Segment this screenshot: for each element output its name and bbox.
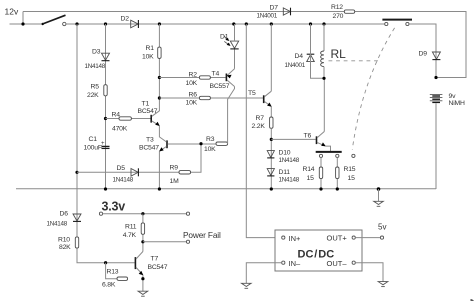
- svg-text:D2: D2: [121, 15, 130, 22]
- svg-text:T6: T6: [304, 133, 312, 140]
- node junction coil bottom: [322, 77, 325, 80]
- svg-text:1N4001: 1N4001: [285, 62, 306, 69]
- ground IN-: [242, 283, 252, 288]
- svg-text:R7: R7: [256, 115, 265, 122]
- wire R7 to D10 junction: [270, 128, 272, 189]
- svg-text:6.8K: 6.8K: [102, 281, 116, 288]
- diode D10: [267, 150, 300, 164]
- svg-text:22K: 22K: [87, 92, 99, 99]
- diode D1 led: [220, 33, 239, 49]
- wire ground rail: [16, 188, 436, 190]
- diode D2: [121, 15, 139, 28]
- node junction rail x105: [104, 187, 107, 190]
- svg-text:1N4148: 1N4148: [279, 157, 300, 164]
- diode D5: [113, 165, 139, 184]
- svg-text:C1: C1: [89, 136, 98, 143]
- svg-text:OUT+: OUT+: [327, 234, 348, 243]
- diode D4 flyback: [285, 53, 315, 69]
- pin OUT-: [327, 259, 356, 268]
- svg-text:2.2K: 2.2K: [252, 123, 266, 130]
- node junction rail ground stub: [377, 187, 381, 191]
- svg-text:R3: R3: [206, 136, 215, 143]
- svg-text:D9: D9: [419, 51, 428, 58]
- svg-text:470K: 470K: [112, 126, 128, 133]
- svg-text:OUT–: OUT–: [327, 259, 348, 268]
- node junction R2 tap: [158, 76, 161, 79]
- wire OUT+ to 5v terminal: [355, 237, 380, 239]
- resistor R12: [331, 4, 355, 20]
- wire battery minus to ground rail: [435, 103, 437, 189]
- pin OUT+: [327, 234, 356, 243]
- resistor R3: [204, 136, 228, 153]
- node junction rail R14: [319, 187, 322, 190]
- svg-text:T4: T4: [212, 70, 220, 77]
- svg-text:D7: D7: [270, 4, 279, 11]
- svg-text:4.7K: 4.7K: [123, 232, 137, 239]
- node junction R6 tap: [158, 96, 161, 99]
- wire switched 12v line: [66, 23, 385, 25]
- wire DCDC IN+ feed vertical: [246, 24, 281, 238]
- relay contact K1a: [382, 20, 412, 26]
- svg-text:1N4148: 1N4148: [47, 221, 68, 228]
- resistor R11: [123, 223, 145, 239]
- ground T7 emitter: [138, 291, 148, 296]
- wire R6 line to T5 base: [159, 97, 263, 99]
- wire x105 vertical D3 R5 C1 chain: [105, 24, 107, 189]
- resistor R14: [303, 158, 323, 190]
- svg-text:D3: D3: [92, 48, 101, 55]
- svg-text:BC547: BC547: [139, 145, 159, 152]
- node junction 12v tee: [21, 22, 24, 25]
- svg-text:T7: T7: [151, 255, 159, 262]
- node junction rail R15: [336, 187, 339, 190]
- transistor T1 BC547 npn: [138, 101, 160, 126]
- diode D11: [267, 169, 300, 184]
- wire T5 collector up to switched rail: [270, 24, 272, 91]
- pin IN+: [282, 234, 301, 243]
- resistor R2: [186, 72, 211, 88]
- svg-text:R5: R5: [91, 83, 100, 90]
- node junction rail x271: [270, 187, 273, 190]
- svg-text:R2: R2: [189, 72, 198, 79]
- wire top unswitched 12v rail to battery: [23, 12, 466, 78]
- wire relay contact to D9: [409, 24, 436, 78]
- svg-text:100uF: 100uF: [84, 145, 102, 152]
- wire D5 R9 line: [77, 144, 201, 173]
- svg-text:10K: 10K: [204, 146, 216, 153]
- wire R11 vertical: [142, 214, 144, 252]
- svg-text:1M: 1M: [170, 178, 180, 185]
- transistor T6 npn: [304, 132, 326, 147]
- wire relay actuator dashed diagonal: [352, 28, 394, 150]
- wire T3 emitter to ground rail: [158, 151, 160, 189]
- svg-text:R15: R15: [344, 166, 356, 173]
- svg-text:NiMH: NiMH: [449, 100, 465, 107]
- svg-text:9v: 9v: [449, 93, 457, 100]
- resistor R9: [170, 165, 191, 186]
- svg-text:R13: R13: [107, 269, 119, 276]
- wire tee from 12v input up to top rail: [22, 12, 24, 25]
- svg-text:BC547: BC547: [138, 108, 158, 115]
- svg-text:BC547: BC547: [148, 264, 168, 271]
- svg-text:10K: 10K: [142, 54, 154, 61]
- capacitor C1 100uF: [84, 136, 110, 152]
- node junction T5 collector: [270, 22, 273, 25]
- terminal 3.3v right: [186, 212, 189, 215]
- module U1 DC/DC converter box: [275, 230, 362, 271]
- svg-text:RL: RL: [331, 47, 347, 61]
- wire IN- to ground: [246, 263, 281, 284]
- corner artifact mark: [471, 299, 474, 301]
- svg-text:R14: R14: [303, 166, 315, 173]
- svg-text:3.3v: 3.3v: [102, 200, 126, 214]
- svg-text:D11: D11: [279, 169, 291, 176]
- svg-text:5v: 5v: [378, 223, 386, 232]
- svg-text:15: 15: [348, 175, 356, 182]
- wire T6 base line: [271, 138, 316, 140]
- resistor R4: [112, 112, 132, 133]
- svg-text:D4: D4: [295, 53, 304, 60]
- node junction R11 top: [141, 212, 144, 215]
- svg-text:10K: 10K: [186, 80, 198, 87]
- node junction power fail tap: [141, 240, 144, 243]
- resistor R6: [186, 92, 211, 107]
- wire D4 vertical: [311, 24, 325, 78]
- wire R13 loop: [106, 263, 117, 279]
- pin IN-: [282, 259, 301, 268]
- relay contact K1b: [316, 152, 355, 158]
- resistor R1: [142, 45, 161, 61]
- battery BT1 9v NiMH: [430, 93, 465, 107]
- node junction DCDC feed: [245, 22, 248, 25]
- node junction R13 left tap: [104, 261, 107, 264]
- wire T4 emitter to D1: [234, 49, 236, 69]
- relay coil RL: [321, 24, 347, 78]
- wire 12v input segment: [10, 23, 43, 25]
- wire R3 to T4 collector: [228, 87, 235, 144]
- resistor R5: [87, 83, 107, 99]
- svg-text:Power Fail: Power Fail: [183, 230, 221, 240]
- svg-text:1N4148: 1N4148: [85, 63, 106, 70]
- node junction RL top: [322, 22, 325, 25]
- svg-text:R4: R4: [112, 112, 121, 119]
- node junction battery top: [434, 76, 437, 79]
- wire T5 emitter to R7: [270, 107, 272, 118]
- resistor R7: [252, 115, 274, 130]
- svg-text:R6: R6: [189, 92, 198, 99]
- node junction D5 tap: [75, 171, 78, 174]
- svg-text:R10: R10: [58, 236, 70, 243]
- node junction x105: [104, 22, 107, 25]
- svg-text:IN+: IN+: [289, 234, 302, 243]
- svg-text:R1: R1: [146, 45, 155, 52]
- transistor T7 BC547 npn: [135, 252, 167, 276]
- svg-text:R9: R9: [170, 165, 179, 172]
- wire relay actuator dashed horizontal: [329, 60, 379, 62]
- terminal power fail: [186, 240, 189, 243]
- svg-text:82K: 82K: [59, 244, 71, 251]
- svg-text:T1: T1: [142, 101, 150, 108]
- node junction R4 tap: [104, 117, 107, 120]
- ground main rail: [374, 189, 384, 206]
- wire T3 base to R3: [168, 143, 216, 145]
- svg-text:12v: 12v: [5, 7, 19, 17]
- svg-text:D1: D1: [220, 33, 229, 40]
- node junction R3 R9: [199, 142, 202, 145]
- terminal 3.3v left: [99, 212, 102, 215]
- node junction x77: [75, 22, 78, 25]
- wire T7 emitter to ground: [142, 275, 144, 291]
- node junction T6 base tap: [270, 138, 273, 141]
- svg-text:1N4148: 1N4148: [279, 177, 300, 184]
- wire R2 line to T4 base: [159, 77, 225, 79]
- svg-text:R12: R12: [331, 4, 343, 11]
- wire power fail line: [143, 241, 187, 243]
- wire x159 vertical R1 T1 T3 chain: [158, 24, 160, 111]
- svg-text:BC557: BC557: [210, 83, 230, 90]
- resistor R13: [102, 269, 128, 289]
- node junction x159: [158, 22, 161, 25]
- svg-text:T5: T5: [248, 90, 256, 97]
- node junction T7 emitter R13: [141, 277, 144, 280]
- terminal 5v: [378, 223, 386, 240]
- svg-text:D5: D5: [117, 165, 126, 172]
- svg-text:1N4148: 1N4148: [113, 177, 134, 184]
- resistor R15: [336, 158, 356, 190]
- node junction D1 top: [232, 22, 235, 25]
- node junction D4 top: [309, 22, 312, 25]
- transistor T5 BC547 npn: [248, 90, 272, 107]
- switch SW1 power switch: [42, 15, 67, 25]
- resistor R10: [58, 236, 79, 251]
- wire 3.3v line: [103, 213, 187, 215]
- svg-text:10K: 10K: [186, 100, 198, 107]
- svg-text:IN–: IN–: [289, 259, 302, 268]
- wire x77 vertical from switch to power-fail divider: [77, 24, 135, 263]
- wire OUT- to ground: [355, 263, 383, 282]
- svg-text:T3: T3: [146, 137, 154, 144]
- svg-text:D6: D6: [60, 211, 69, 218]
- ground OUT-: [378, 282, 388, 287]
- svg-text:D10: D10: [279, 150, 291, 157]
- wire T1 emitter to T3 collector: [158, 126, 160, 138]
- svg-text:1N4001: 1N4001: [257, 13, 278, 20]
- wire D1 anode to rail: [234, 24, 236, 41]
- svg-text:270: 270: [333, 13, 344, 20]
- diode D7: [257, 4, 291, 19]
- transistor T4 BC557 pnp: [210, 69, 235, 90]
- diode D3: [85, 48, 110, 70]
- wire T6 emitter to contact bar: [325, 146, 330, 151]
- svg-text:15: 15: [307, 175, 315, 182]
- wire R4 base line to T1: [106, 118, 151, 120]
- transistor T3 BC547 npn mirrored: [139, 137, 167, 152]
- diode D6: [47, 211, 82, 228]
- wire T6 collector to relay coil: [323, 78, 325, 131]
- svg-text:R11: R11: [125, 224, 137, 231]
- diode D9: [419, 51, 441, 60]
- node junction rail x159: [158, 187, 161, 190]
